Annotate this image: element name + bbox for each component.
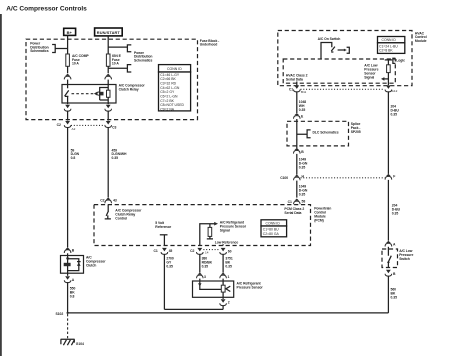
- page border left edge: [0, 14, 2, 356]
- power distribution schematics pointer right: [108, 45, 131, 52]
- svg-text:C2: C2: [190, 249, 194, 253]
- dotted pairing line H-F: [301, 177, 385, 179]
- fuse IGN E 10A: [106, 54, 110, 66]
- fuse A/C COMP 10A: [66, 54, 70, 66]
- svg-text:C100: C100: [280, 176, 288, 180]
- svg-text:Serial Data: Serial Data: [286, 78, 303, 82]
- splice pack SP205 box: [287, 121, 349, 146]
- svg-text:C2=8 BK: C2=8 BK: [379, 49, 393, 53]
- A/C refrigerant pressure sensor box: [193, 281, 234, 297]
- svg-text:Logic: Logic: [396, 58, 405, 62]
- connector B A/C compressor clutch: [64, 247, 71, 253]
- connector sensor pin 3: [197, 273, 204, 279]
- connector A A/C compressor clutch: [67, 273, 69, 276]
- svg-text:CONN ID: CONN ID: [382, 38, 397, 42]
- connector relay pin bottom left: [67, 103, 69, 104]
- connector sensor pin 1: [220, 273, 227, 279]
- svg-text:C1: C1: [289, 88, 293, 92]
- CONN ID table fuse block: [159, 65, 191, 72]
- svg-text:0.35: 0.35: [225, 265, 232, 269]
- svg-text:Signal: Signal: [220, 229, 230, 233]
- wire 380 RD/BK: [199, 254, 201, 273]
- svg-text:0.35: 0.35: [391, 113, 398, 117]
- relay switch contact: [65, 85, 69, 104]
- svg-text:0.35: 0.35: [299, 193, 306, 197]
- svg-text:C2=80 GA: C2=80 GA: [263, 232, 280, 236]
- DLC schematics branch: [297, 130, 311, 138]
- wire 459 D-GN/WH right run: [107, 127, 109, 197]
- svg-text:C2: C2: [100, 198, 104, 202]
- svg-text:RUN/START: RUN/START: [97, 30, 121, 35]
- svg-text:B+: B+: [67, 30, 73, 35]
- dotted pairing line B11-A12: [301, 88, 385, 90]
- HVAC control module outer box: [278, 31, 412, 86]
- splice wire through: [296, 121, 298, 148]
- svg-text:0.35: 0.35: [299, 108, 306, 112]
- connector sensor pin 2: [222, 297, 224, 299]
- low pressure switch contact: [387, 249, 391, 268]
- wire 204 D-BU upper: [387, 91, 389, 173]
- svg-text:58: 58: [302, 200, 306, 204]
- svg-text:3: 3: [204, 275, 206, 279]
- sensor internal signal tap: [200, 281, 222, 289]
- wire 1049 D-GN upper: [296, 154, 298, 175]
- svg-text:0.35: 0.35: [299, 166, 306, 170]
- svg-text:1: 1: [228, 275, 230, 279]
- connector E: [294, 113, 301, 119]
- svg-text:F: F: [393, 175, 395, 179]
- svg-text:C3=32 RD: C3=32 RD: [160, 82, 176, 86]
- wire fuse right to relay: [107, 66, 109, 73]
- wire 5V ref to sensor pin 2: [164, 308, 223, 310]
- svg-text:Serial Data: Serial Data: [284, 211, 301, 215]
- svg-text:Underhood: Underhood: [200, 43, 218, 47]
- connector B low pressure switch: [385, 270, 392, 277]
- connector pin A12: [385, 85, 392, 92]
- wire 3751 BK: [222, 254, 224, 273]
- svg-text:B11: B11: [301, 90, 307, 94]
- dotted pairing line C2 pins: [203, 249, 219, 251]
- svg-text:Switch: Switch: [399, 257, 410, 261]
- relay coil driver glyph: [94, 92, 97, 96]
- connector pin F: [385, 174, 392, 180]
- svg-text:(PCM): (PCM): [314, 219, 324, 223]
- svg-text:S102: S102: [56, 312, 64, 316]
- clutch suppression diode loop: [68, 259, 79, 271]
- wire 59 D-GN left run: [67, 127, 69, 247]
- pull-up resistor in PCM: [209, 224, 211, 228]
- wire 2700 GY: [163, 254, 165, 310]
- HVAC logic inner box: [283, 59, 395, 83]
- svg-text:Schematics: Schematics: [30, 49, 49, 53]
- relay K: A/C Compressor Clutch Relay box: [62, 85, 116, 104]
- connector relay pin top right: [105, 74, 112, 80]
- svg-text:A12: A12: [392, 89, 398, 93]
- svg-text:Clutch Relay: Clutch Relay: [119, 88, 139, 92]
- svg-text:A/C Compressor Controls: A/C Compressor Controls: [6, 6, 87, 13]
- connector C2 at fuse block bottom: [64, 121, 71, 128]
- relay actuation dashed link: [72, 93, 94, 95]
- connector pin 60 PCM bottom: [220, 248, 227, 255]
- clutch coil: [67, 256, 69, 274]
- connector relay pin top left: [64, 74, 71, 80]
- logic pull-up resistor HVAC: [385, 59, 393, 61]
- PCM powertrain control module box: [94, 205, 311, 246]
- svg-text:43: 43: [113, 198, 117, 202]
- wire 560 BK: [387, 276, 389, 313]
- svg-text:14: 14: [205, 251, 209, 255]
- svg-text:C1: C1: [288, 200, 292, 204]
- wire 550 BK: [67, 282, 69, 313]
- svg-text:Reference: Reference: [155, 225, 171, 229]
- relay coil: [100, 85, 109, 104]
- svg-text:C3: C3: [112, 125, 116, 129]
- dashed lead to ground: [67, 314, 69, 338]
- svg-text:0.8: 0.8: [70, 295, 75, 299]
- svg-text:0.35: 0.35: [112, 156, 119, 160]
- svg-text:C9=2 NA: C9=2 NA: [160, 107, 175, 111]
- node RUN/START: [95, 28, 123, 36]
- wire fuse left to relay: [67, 66, 69, 73]
- svg-text:CONN ID: CONN ID: [167, 67, 182, 71]
- wire B+ to fuse: [67, 35, 69, 54]
- wire 1048 WH: [296, 91, 298, 113]
- wire 1049 D-GN lower: [296, 181, 298, 198]
- node B+: [64, 28, 76, 35]
- fuse block underhood box: [26, 39, 198, 119]
- sensor transducer element: [222, 281, 224, 297]
- wire 204 D-BU lower: [387, 180, 389, 241]
- A/C low pressure switch box: [382, 249, 398, 268]
- svg-text:DLC Schematics: DLC Schematics: [313, 130, 339, 134]
- svg-text:SP205: SP205: [351, 130, 361, 134]
- svg-text:Schematics: Schematics: [134, 58, 153, 62]
- svg-text:Module: Module: [415, 39, 427, 43]
- connector C3 at fuse block bottom: [105, 121, 112, 128]
- svg-text:A/C On Switch: A/C On Switch: [318, 37, 341, 41]
- CONN ID table PCM: [261, 220, 287, 226]
- svg-text:60: 60: [228, 249, 232, 253]
- svg-text:2: 2: [228, 301, 230, 305]
- svg-text:10 A: 10 A: [72, 62, 79, 66]
- svg-text:G104: G104: [76, 342, 84, 346]
- svg-text:C2: C2: [57, 123, 61, 127]
- svg-text:Low Reference: Low Reference: [215, 241, 239, 245]
- ground G104: [61, 339, 75, 344]
- dotted pairing line C2-C3: [71, 124, 105, 126]
- svg-text:10 A: 10 A: [112, 62, 119, 66]
- svg-text:Pressure Sensor: Pressure Sensor: [237, 286, 264, 290]
- logic bracket label: [393, 58, 396, 63]
- A/C refrigerant pressure sensor signal arrow in PCM: [200, 224, 215, 246]
- connector B splice bottom: [294, 148, 301, 154]
- svg-text:A2: A2: [72, 127, 76, 131]
- A/C compressor clutch relay control switch in PCM: [105, 205, 111, 219]
- svg-text:0.35: 0.35: [166, 265, 173, 269]
- svg-text:CONN ID: CONN ID: [266, 221, 281, 225]
- svg-text:0.35: 0.35: [391, 296, 398, 300]
- svg-text:45: 45: [169, 249, 173, 253]
- svg-text:0.35: 0.35: [202, 265, 209, 269]
- CONN ID table HVAC: [378, 37, 405, 43]
- svg-text:C1: C1: [154, 249, 158, 253]
- connector relay pin bottom right: [107, 103, 109, 104]
- A/C compressor clutch box: [61, 256, 84, 274]
- svg-text:Clutch: Clutch: [86, 264, 96, 268]
- connector A low pressure switch: [385, 241, 392, 247]
- svg-text:0.8: 0.8: [71, 156, 76, 160]
- svg-text:Signal: Signal: [364, 75, 374, 79]
- svg-text:Control: Control: [115, 216, 127, 220]
- wire RUN/START to fuse: [107, 36, 109, 54]
- svg-text:0.35: 0.35: [392, 212, 399, 216]
